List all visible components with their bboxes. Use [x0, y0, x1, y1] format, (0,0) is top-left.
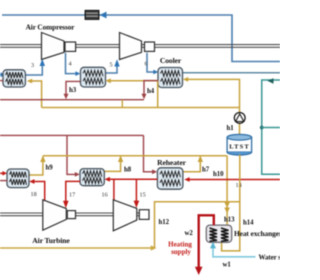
svg-text:5: 5	[110, 62, 113, 69]
svg-text:6: 6	[145, 61, 148, 68]
svg-text:15: 15	[140, 192, 146, 199]
svg-text:18: 18	[31, 191, 37, 198]
svg-text:Air Compressor: Air Compressor	[26, 23, 76, 32]
turbine T1	[43, 200, 67, 230]
wire blue C2 out to cooler node 6	[147, 53, 154, 72]
svg-text:Air Turbine: Air Turbine	[32, 236, 70, 245]
wire maroon bus	[0, 99, 144, 101]
coupling K1	[65, 42, 76, 51]
svg-text:h3: h3	[69, 87, 77, 94]
heat exchanger HX5 (district heating)	[206, 225, 231, 242]
wire maroon h3 from HX2 left down to bus	[66, 81, 80, 95]
wire cooler air outlet to right edge	[183, 72, 280, 74]
teal junction node	[260, 126, 264, 130]
tank LTST	[227, 134, 252, 155]
wire yellow h10/h13 drop to heat exchanger	[226, 156, 228, 225]
wire red feed from right edge into reheater	[189, 179, 280, 181]
wire yellow into HX1 right	[30, 81, 42, 108]
wire yellow LTST outlet h14 loop	[222, 155, 240, 251]
wire cyan water inlet w1	[213, 247, 256, 257]
svg-text:3: 3	[31, 62, 34, 69]
svg-text:Cooler: Cooler	[160, 56, 182, 65]
svg-text:h7: h7	[202, 167, 210, 174]
svg-text:h1: h1	[227, 125, 235, 132]
svg-text:h8: h8	[124, 167, 132, 174]
wire yellow h9 riser from HX3	[29, 157, 43, 176]
reheater HX	[157, 168, 183, 189]
heat exchanger HX1 (intercooler)	[3, 70, 25, 87]
wire red w2 heating supply	[199, 215, 214, 268]
wire yellow into cooler right from pump riser	[186, 79, 240, 137]
svg-text:h10: h10	[213, 171, 224, 178]
pump P1	[234, 113, 245, 124]
shaft compressor train	[0, 45, 280, 48]
svg-text:h13: h13	[224, 217, 235, 224]
svg-text:w1: w1	[223, 262, 232, 269]
wire blue C1 out to HX2 node 4	[66, 53, 77, 74]
compressor C2	[120, 33, 142, 60]
wire red into HX3 left	[0, 172, 4, 174]
wire yellow h7 riser from reheater	[183, 157, 200, 172]
wire blue HX2 to C2 inlet node 5	[105, 67, 117, 74]
svg-text:LTST: LTST	[229, 143, 250, 150]
shaft turbine train	[0, 213, 139, 216]
heat exchanger HX4 (reheater row)	[80, 169, 104, 186]
svg-text:h12: h12	[159, 219, 170, 226]
svg-text:w2: w2	[185, 230, 194, 237]
wire maroon stub HX1 left	[0, 80, 3, 82]
wire red reheater out to HX4	[110, 178, 158, 180]
svg-text:h14: h14	[243, 220, 254, 227]
coupling K4	[139, 210, 149, 220]
svg-text:h9: h9	[46, 165, 54, 172]
wire red node 15 drop to turbine T2 inlet	[135, 179, 137, 201]
wire blue into HX1	[0, 74, 3, 76]
wire maroon HTF supply line	[0, 134, 144, 136]
wire yellow connector	[121, 100, 123, 108]
wire yellow h8 riser from HX4	[105, 157, 121, 171]
wire maroon h4 from cooler left down to bus	[144, 81, 158, 95]
arrow into valve (flow right-to-left)	[100, 12, 107, 19]
compressor C1	[42, 33, 65, 60]
wire yellow into HX2 right	[108, 81, 158, 108]
valve/silencer V1 on top line	[85, 10, 99, 19]
wire red turbine T2 exhaust riser node 16	[113, 179, 115, 201]
teal arrow	[267, 78, 273, 84]
wire maroon branch into reheater	[144, 135, 154, 171]
svg-text:17: 17	[69, 192, 75, 199]
svg-text:Heat exchanger: Heat exchanger	[234, 229, 280, 238]
wire yellow long bottom line	[0, 247, 155, 249]
heat exchanger HX3 (heater)	[7, 169, 29, 188]
wire yellow bus 2	[43, 155, 227, 157]
heat exchanger HX2 (intercooler)	[81, 67, 106, 87]
wire teal middle branch	[262, 127, 280, 129]
wire red turbine T1 exhaust into HX3 node 18	[34, 182, 45, 202]
turbine T2	[113, 200, 137, 231]
svg-text:14: 14	[236, 182, 242, 189]
coupling K3	[67, 211, 75, 219]
wire maroon branch into HX4	[67, 135, 76, 174]
svg-text:supply: supply	[171, 248, 191, 256]
svg-text:h4: h4	[147, 88, 155, 95]
coupling K2	[145, 42, 155, 51]
cooler HX	[158, 68, 183, 88]
wire red HX4 out down to turbine T1 inlet node 17	[66, 181, 80, 201]
svg-text:Reheater: Reheater	[157, 158, 186, 167]
svg-text:16: 16	[102, 192, 108, 199]
wire yellow bus 1	[42, 107, 240, 109]
svg-text:4: 4	[69, 61, 72, 68]
teal line upper to right edge	[262, 80, 280, 174]
wire blue HX1 to C1 inlet node 3	[25, 66, 42, 75]
wire maroon stub HX3 left	[0, 180, 7, 182]
svg-text:Water s: Water s	[259, 254, 281, 262]
wire blue top line h2	[2, 15, 280, 62]
wire yellow h12 return loop	[155, 202, 240, 248]
